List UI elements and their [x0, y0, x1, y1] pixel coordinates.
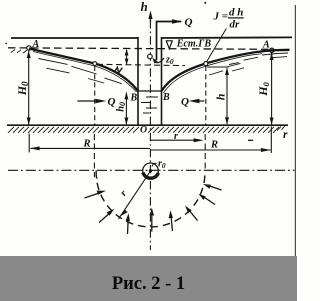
svg-text:A: A	[32, 39, 40, 50]
node A right circle	[270, 48, 274, 52]
r0 leader hook	[152, 163, 157, 166]
svg-text:B: B	[162, 92, 170, 103]
arrowhead Q top	[172, 19, 183, 23]
svg-text:Ест.ГВ: Ест.ГВ	[176, 39, 212, 50]
well water shading	[141, 97, 158, 113]
extension dashed vertical z point below ground	[93, 134, 95, 177]
svg-text:r: r	[283, 129, 288, 141]
extension dashed vertical from z point	[94, 66, 96, 125]
z0 circle on axis	[148, 54, 153, 59]
R right dimension	[150, 149, 271, 151]
R left dimension	[31, 147, 151, 149]
horizontal dash-dot axis	[8, 169, 295, 171]
flow arrow 108deg	[126, 213, 130, 234]
h axis arrow	[150, 13, 152, 22]
static water level dashed line	[8, 48, 270, 50]
svg-text:R: R	[83, 138, 91, 149]
aquifer base line	[7, 124, 288, 126]
water shading dashes left	[39, 59, 122, 84]
svg-text:A: A	[262, 40, 270, 51]
flow arrow 74deg	[169, 210, 173, 231]
svg-text:r0: r0	[158, 159, 166, 171]
well circle (plan)	[143, 163, 159, 179]
Q arrow left	[77, 100, 99, 102]
flow arrow 56deg	[185, 206, 198, 221]
node A left circle	[27, 46, 31, 50]
caption band	[0, 256, 297, 301]
z0 curved leader arrow	[154, 58, 165, 63]
discharge pipe	[157, 22, 182, 61]
stray dash	[248, 139, 253, 141]
svg-text:Q: Q	[108, 96, 116, 108]
R left extension line	[28, 134, 30, 153]
h0 dimension arrow	[125, 93, 127, 125]
svg-text:d h: d h	[229, 7, 243, 19]
base hatching	[8, 126, 285, 133]
nabla water mark	[166, 41, 172, 49]
flow arrow 156deg	[85, 191, 107, 198]
flow arrow 38deg	[199, 194, 216, 205]
J leader line	[207, 29, 227, 62]
z level dashed horizontal	[97, 64, 185, 65]
svg-text:h: h	[141, 0, 148, 14]
dashed circle of influence	[96, 170, 205, 227]
depression curve right	[162, 50, 290, 91]
svg-text:h: h	[213, 93, 227, 100]
well circle thick lower arc	[143, 173, 159, 179]
J point circle on right curve	[204, 62, 208, 66]
depression curve left echo	[33, 52, 137, 93]
H0 right dimension arrow	[271, 53, 273, 124]
r dimension row	[151, 139, 201, 141]
fraction bar	[228, 17, 244, 18]
svg-text:Q: Q	[185, 17, 193, 29]
radial r line	[119, 171, 151, 219]
speck	[204, 2, 206, 4]
well casing left wall	[137, 37, 139, 125]
flow arrow 137deg	[99, 209, 115, 223]
Q arrow right	[193, 100, 204, 102]
R right extension line	[270, 127, 272, 154]
svg-text:B: B	[130, 92, 138, 103]
ground surface left	[11, 37, 138, 39]
center dot	[149, 169, 152, 172]
svg-text:r: r	[174, 131, 178, 142]
z dimension arrow	[126, 50, 128, 64]
h level tick	[207, 66, 229, 68]
svg-text:dr: dr	[230, 19, 241, 31]
svg-text:Q: Q	[181, 96, 189, 108]
extension dashed vertical J point below ground	[204, 134, 206, 169]
well water level	[138, 90, 162, 92]
page edge line right	[294, 5, 296, 256]
shore ticks under static level (left edge)	[11, 50, 27, 54]
depression curve left	[29, 49, 138, 92]
svg-text:z0: z0	[165, 54, 174, 66]
svg-text:J =: J =	[213, 11, 229, 23]
flow arrow 22deg	[203, 184, 222, 190]
z point circle on curve	[93, 62, 97, 66]
centerline (dash-dot) of well	[149, 20, 151, 250]
svg-text:R: R	[210, 140, 218, 151]
depression curve right echo	[164, 54, 263, 93]
well casing right wall	[161, 37, 163, 125]
label z (hand-drawn rotated)	[115, 67, 123, 72]
flow arrow 91deg	[150, 208, 154, 232]
svg-text:h0: h0	[115, 102, 127, 112]
ground surface right	[162, 36, 293, 39]
svg-text:O: O	[140, 125, 147, 136]
water shading dashes right	[209, 53, 288, 75]
H0 left dimension arrow	[28, 51, 30, 124]
h dimension arrow	[226, 68, 228, 124]
extension dashed vertical from J point	[205, 66, 207, 125]
